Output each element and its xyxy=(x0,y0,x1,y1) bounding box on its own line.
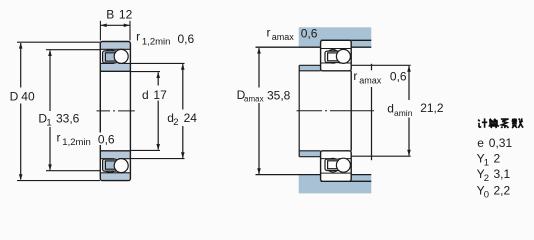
gap in left edge behind 0,6 text xyxy=(99,133,103,146)
cage inner bar top xyxy=(105,53,115,61)
cage bottom xyxy=(103,159,118,171)
housing cut edge line lower segment xyxy=(371,87,373,160)
centerline left view xyxy=(97,110,135,112)
D1 dimension extension line bottom xyxy=(46,170,100,172)
ball left bottom (behind cage) xyxy=(103,159,117,173)
raceway line top xyxy=(100,48,130,50)
系 xyxy=(501,119,509,128)
right bearing ball right top xyxy=(336,49,350,63)
shaft shoulder block top xyxy=(299,65,320,71)
right bearing side face edge right xyxy=(350,71,352,151)
D1 dimension line upper segment xyxy=(49,51,51,112)
inner ring scallop line top xyxy=(100,62,130,64)
svg-text:40: 40 xyxy=(21,90,35,104)
svg-text:r: r xyxy=(136,30,140,44)
svg-text:amax: amax xyxy=(359,76,382,86)
housing block top xyxy=(299,27,372,47)
ball left top (behind cage) xyxy=(103,50,117,64)
raceway line bottom xyxy=(100,172,130,174)
D1 dimension extension line top xyxy=(46,49,100,51)
svg-text:3,1: 3,1 xyxy=(494,167,511,181)
算 xyxy=(489,119,498,121)
svg-text:1: 1 xyxy=(46,118,51,129)
D dimension line lower segment xyxy=(20,104,22,180)
cage inner bar bottom xyxy=(105,161,115,169)
D arrow up xyxy=(19,43,23,49)
svg-text:24: 24 xyxy=(184,111,198,125)
housing bore line at bearing OD top xyxy=(321,39,372,41)
da arrow up xyxy=(407,66,411,72)
svg-text:0,6: 0,6 xyxy=(301,27,318,41)
svg-text:r: r xyxy=(267,25,271,39)
outer ring bottom band xyxy=(100,173,130,181)
d dimension line upper segment xyxy=(157,72,159,85)
svg-text:1,2min: 1,2min xyxy=(142,36,171,47)
svg-text:amax: amax xyxy=(244,95,264,104)
d2 dimension extension line top xyxy=(131,62,185,64)
d2 arrow up xyxy=(181,64,185,70)
bearing outline rectangle xyxy=(100,42,130,181)
B dimension extension line right xyxy=(129,21,131,41)
d dimension extension line top xyxy=(131,71,160,73)
svg-text:e: e xyxy=(477,136,484,150)
da arrow down xyxy=(407,150,411,156)
svg-text:0,6: 0,6 xyxy=(390,69,407,83)
shaft shoulder block bottom xyxy=(299,151,320,157)
B dimension extension line left xyxy=(99,21,101,41)
housing shoulder bore line (Da level, also Da extension line top) xyxy=(256,46,372,48)
svg-text:r: r xyxy=(57,130,61,144)
svg-text:r: r xyxy=(353,69,357,83)
right bearing ball right bottom xyxy=(336,158,350,172)
da dimension line upper segment xyxy=(408,66,410,100)
svg-text:0: 0 xyxy=(484,189,489,200)
svg-text:12: 12 xyxy=(119,7,133,21)
right bearing cage top xyxy=(325,51,341,62)
right bearing cage bottom xyxy=(325,159,341,170)
shaft seat line top xyxy=(299,70,320,72)
shaft face line xyxy=(298,65,300,156)
svg-text:d: d xyxy=(142,88,149,102)
D1 dimension line lower segment xyxy=(49,127,51,170)
Da arrow down xyxy=(257,168,261,174)
D dimension extension line top xyxy=(17,41,100,43)
ball right top xyxy=(114,49,128,63)
svg-text:amax: amax xyxy=(272,32,295,42)
right bearing outer raceway line bottom xyxy=(321,172,352,174)
da dimension line lower segment xyxy=(408,118,410,156)
d dimension line lower segment xyxy=(157,101,159,150)
right bearing inner ring shoulder line top xyxy=(321,61,352,63)
housing bore line at bearing OD bottom xyxy=(321,180,372,182)
ball right bottom xyxy=(114,159,128,173)
D1 arrow down xyxy=(48,164,52,170)
cage top xyxy=(103,51,118,63)
right bearing inner ring shoulder line bottom xyxy=(321,159,352,161)
svg-text:amin: amin xyxy=(394,108,413,118)
housing cut edge line upper segment xyxy=(371,64,373,71)
right bearing top section outline xyxy=(321,40,352,71)
Da dimension line lower segment xyxy=(258,103,260,174)
shaft shoulder surface line bottom xyxy=(299,156,320,158)
right bearing ball left bottom xyxy=(326,158,340,172)
bore line bottom xyxy=(100,150,130,152)
shaft seat line bottom xyxy=(299,150,320,152)
right bearing bottom section outline xyxy=(321,151,352,182)
计 xyxy=(478,118,487,127)
right bearing cage bar top xyxy=(328,53,339,61)
d arrow down xyxy=(156,144,160,150)
svg-text:d: d xyxy=(387,102,394,116)
d dimension extension line bottom xyxy=(131,149,160,151)
svg-text:0,6: 0,6 xyxy=(98,132,115,146)
B dimension line xyxy=(100,24,130,26)
svg-text:33,6: 33,6 xyxy=(56,112,80,126)
svg-text:0,6: 0,6 xyxy=(178,32,195,46)
svg-text:1,2min: 1,2min xyxy=(62,137,91,148)
D1 arrow up xyxy=(48,50,52,56)
bore line top xyxy=(100,70,130,72)
right bearing cage bar bottom xyxy=(328,161,339,169)
svg-text:2,2: 2,2 xyxy=(494,183,511,197)
svg-text:35,8: 35,8 xyxy=(267,88,291,102)
right bearing body bottom section fill xyxy=(321,151,352,182)
svg-text:0,31: 0,31 xyxy=(489,136,513,150)
数 xyxy=(512,118,523,128)
inner ring scallop line bottom xyxy=(100,159,130,161)
B arrow left xyxy=(101,24,107,28)
housing block bottom xyxy=(299,175,372,194)
svg-text:2: 2 xyxy=(494,152,501,166)
da dimension extension line top xyxy=(351,64,411,66)
d2 dimension line upper segment xyxy=(182,64,184,109)
svg-text:B: B xyxy=(106,7,114,21)
svg-text:21,2: 21,2 xyxy=(420,101,444,115)
da dimension extension line bottom xyxy=(351,155,411,157)
D dimension extension line bottom xyxy=(17,180,100,182)
B arrow right xyxy=(124,24,130,28)
Da dimension line upper segment xyxy=(258,48,260,88)
D dimension line upper segment xyxy=(20,43,22,88)
inner ring bottom band xyxy=(100,151,130,159)
inner ring top band xyxy=(100,63,130,71)
right bearing ball left top xyxy=(326,50,340,64)
svg-text:17: 17 xyxy=(153,88,167,102)
d2 dimension extension line bottom xyxy=(131,158,185,160)
housing shoulder bore line bottom (Da extension line bottom) xyxy=(256,174,372,176)
svg-text:2: 2 xyxy=(173,117,178,128)
shaft shoulder surface line top (da level) xyxy=(299,64,320,66)
centerline right view xyxy=(297,110,375,112)
d2 dimension line lower segment xyxy=(182,126,184,158)
title 计算系数 (hand-drawn strokes) xyxy=(478,118,523,128)
Da arrow up xyxy=(257,48,261,54)
outer ring top band xyxy=(100,42,130,50)
D arrow down xyxy=(19,174,23,180)
right bearing outer raceway line top xyxy=(321,48,352,50)
d arrow up xyxy=(156,72,160,78)
d2 arrow down xyxy=(181,152,185,158)
right bearing body top section fill xyxy=(321,40,352,71)
svg-text:D: D xyxy=(10,90,19,104)
